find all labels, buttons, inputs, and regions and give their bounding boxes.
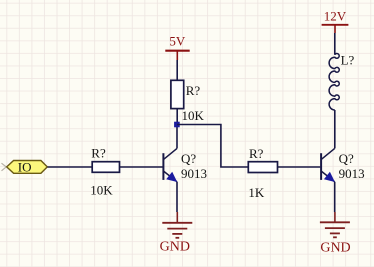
svg-text:R?: R?	[186, 83, 201, 98]
svg-text:1K: 1K	[248, 185, 265, 200]
wire 5V to R2	[176, 60, 178, 81]
svg-text:GND: GND	[320, 240, 350, 255]
resistor R3 1K body	[248, 162, 277, 173]
transistor Q2	[321, 148, 335, 182]
wire junction to Q1 collector	[176, 125, 178, 149]
svg-text:GND: GND	[160, 240, 190, 255]
svg-text:Q?: Q?	[181, 151, 196, 166]
svg-text:R?: R?	[91, 146, 106, 161]
wire 12V to L1	[334, 33, 336, 55]
junction node	[174, 122, 180, 128]
wire R1 to Q1 base	[120, 166, 163, 168]
wire R3 to Q2 base	[278, 166, 321, 168]
port IO	[2, 159, 48, 174]
ground GND2	[320, 212, 351, 255]
wire Q1 emitter to GND	[176, 182, 178, 212]
power port 5V	[165, 34, 189, 60]
svg-text:Q?: Q?	[339, 151, 354, 166]
svg-text:10K: 10K	[182, 108, 205, 123]
power port 12V	[322, 8, 349, 33]
transistor Q1	[163, 148, 177, 182]
svg-text:R?: R?	[249, 146, 264, 161]
ground GND1	[160, 212, 193, 255]
resistor R2 10K body (vertical)	[171, 80, 184, 108]
svg-text:9013: 9013	[339, 166, 365, 181]
wire Q2 emitter to GND	[334, 182, 336, 212]
wire L1 to Q2 collector	[334, 110, 336, 148]
svg-text:9013: 9013	[181, 166, 207, 181]
svg-text:10K: 10K	[90, 182, 113, 197]
wire R2 to junction	[176, 109, 178, 125]
svg-text:12V: 12V	[324, 8, 347, 23]
svg-text:IO: IO	[18, 159, 32, 174]
resistor R1 10K body	[92, 162, 119, 173]
svg-text:L?: L?	[341, 53, 355, 68]
svg-text:5V: 5V	[169, 34, 186, 49]
wire junction to R3 (corner)	[177, 125, 248, 168]
wire IO to R1	[48, 166, 93, 168]
inductor L1	[329, 54, 339, 111]
